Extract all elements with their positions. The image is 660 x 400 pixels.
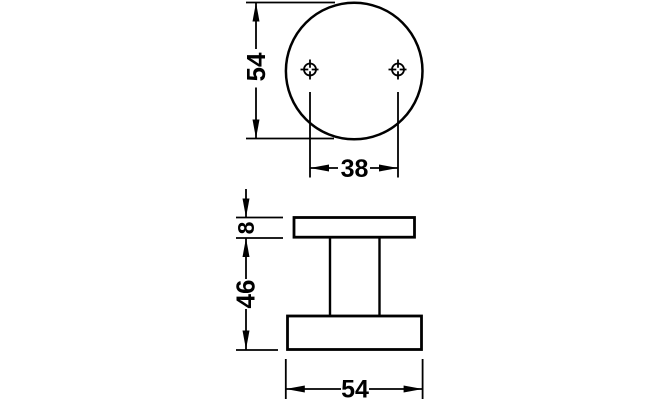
dim 46 extension line bottom: [236, 349, 278, 351]
dim 54 (top view) dimension line lower segment: [255, 88, 257, 139]
dim 54 (side view) extension line right: [422, 359, 424, 399]
dim 38 dimension line right segment: [370, 167, 398, 169]
dim 46 dimension line lower segment: [245, 309, 247, 350]
svg-text:38: 38: [341, 155, 369, 183]
knob side view: stem right line: [378, 238, 380, 316]
svg-text:54: 54: [341, 376, 369, 400]
dim 54 (side view) dimension line left segment: [286, 388, 341, 390]
dim 46 arrow up: [243, 238, 250, 257]
svg-text:8: 8: [233, 221, 259, 234]
dim 38 arrow left: [310, 165, 329, 172]
svg-text:46: 46: [231, 280, 261, 309]
dim 8 arrow down to top line: [243, 199, 250, 218]
dim 46 arrow down: [243, 331, 250, 350]
knob side view: base plate rectangle: [288, 316, 422, 350]
dim 54 (side view) extension line left: [285, 359, 287, 399]
svg-text:54: 54: [241, 52, 271, 81]
dim 54 (side view) arrow left: [286, 386, 305, 393]
knob side view: head plate rectangle: [294, 218, 415, 238]
dim 38 dimension line left segment: [310, 167, 338, 169]
dim 54 (top view) extension line bottom: [246, 138, 334, 140]
dim 8 extension line upper: [236, 217, 283, 219]
center mark right horizontal arm: [389, 69, 407, 71]
center mark left horizontal arm: [301, 69, 319, 71]
knob side view: stem left line: [329, 238, 331, 316]
dim 54 (top view) dimension line upper segment: [255, 3, 257, 50]
dim 54 (top view) arrow down: [253, 120, 260, 139]
dim 54 (side view) dimension line right segment: [369, 388, 423, 390]
dim 8 extension line lower: [236, 237, 283, 239]
dim 54 (top view) arrow up: [253, 3, 260, 22]
center mark left vertical arm: [309, 60, 311, 80]
dim 38 extension line right: [397, 92, 399, 178]
dim 8 leader line above: [245, 189, 247, 217]
dim 38 extension line left: [309, 92, 311, 178]
center mark right vertical arm: [397, 60, 399, 80]
center mark right hole circle: [392, 64, 404, 76]
dim 54 (top view) extension line top: [246, 2, 335, 4]
dim 38 arrow right: [379, 165, 398, 172]
dim 46 dimension line upper segment: [245, 238, 247, 279]
dim 54 (side view) arrow right: [404, 386, 423, 393]
knob top view: rose outline circle Ø54: [286, 3, 423, 140]
center mark left hole circle: [304, 64, 316, 76]
